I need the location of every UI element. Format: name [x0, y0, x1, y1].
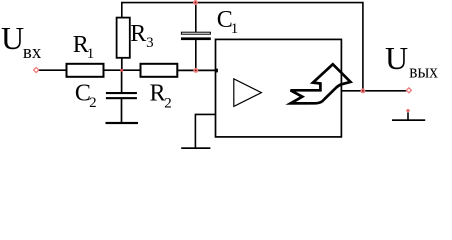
op-amp U1 box	[216, 39, 342, 136]
wire: R2 to op-amp input pin	[178, 69, 216, 71]
wire: C2 to ground	[121, 99, 123, 123]
capacitor C2	[106, 92, 137, 94]
node: output / feedback junction	[360, 88, 365, 93]
svg-text:3: 3	[146, 35, 154, 51]
wire: input to R1	[39, 69, 67, 71]
svg-text:R: R	[130, 21, 146, 47]
svg-text:2: 2	[89, 95, 97, 111]
ground (C2)	[106, 122, 139, 124]
resistor R2	[141, 64, 178, 77]
ground (op-amp)	[181, 147, 210, 149]
ground (output)	[392, 119, 425, 121]
svg-text:U: U	[385, 40, 408, 76]
svg-text:1: 1	[231, 21, 239, 37]
pin nub (op-amp input)	[216, 69, 218, 73]
wire: R1 to R2	[104, 69, 140, 71]
resistor R1	[67, 64, 104, 77]
triangle (amplifier symbol)	[234, 79, 262, 107]
wire: R3 top stub + top feedback wire + right drop to output	[122, 3, 363, 91]
wire: node A vertical branch down to C2	[121, 70, 123, 92]
svg-text:2: 2	[164, 95, 172, 111]
wire: C1 top stub	[195, 3, 197, 32]
svg-text:R: R	[150, 81, 166, 107]
wire: op-amp ground lead	[195, 114, 215, 148]
capacitor C1 (polarized, hollow top plate)	[181, 32, 210, 34]
resistor R3	[117, 18, 130, 58]
svg-text:вх: вх	[23, 43, 42, 63]
arrow symbol (drawn first so box edge overlays its fill)	[291, 64, 351, 103]
node: C1 / op-amp input junction	[193, 68, 198, 73]
wire: output	[342, 90, 407, 92]
output terminal	[406, 88, 411, 93]
svg-text:1: 1	[87, 46, 95, 62]
wire: C1 bottom stub	[195, 40, 197, 70]
wire: output ground stub	[407, 111, 409, 120]
svg-text:U: U	[1, 20, 24, 56]
wire: R3 bottom stub	[121, 58, 123, 70]
node: junction R1/R2/R3/C2	[120, 69, 123, 72]
output ground node marker	[406, 109, 410, 113]
input terminal	[34, 68, 39, 73]
node: top wire / C1 junction	[193, 0, 198, 5]
svg-text:вых: вых	[409, 63, 438, 83]
